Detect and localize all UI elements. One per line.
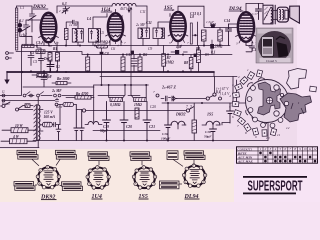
IF3 / detector load xyxy=(190,20,254,52)
capacitor C7 box xyxy=(36,50,45,54)
power transformer T4 (autotransformer) xyxy=(34,97,43,148)
svg-text:C17: C17 xyxy=(252,12,258,16)
tube pinout diagrams (bottom views) xyxy=(14,150,207,200)
pinout DK92 callout box left xyxy=(14,182,35,191)
svg-text:2,2MΩ: 2,2MΩ xyxy=(211,45,223,49)
wire V4 top to output transformer xyxy=(246,3,263,12)
svg-text:C16: C16 xyxy=(162,132,168,136)
wire row y=98.5 with jack xyxy=(176,98,206,100)
svg-text:5: 5 xyxy=(229,105,231,109)
electrolytic C21 xyxy=(143,102,151,141)
capacitor C18 xyxy=(210,129,217,141)
wire V3 top to IF3 xyxy=(178,6,204,25)
svg-text:7: 7 xyxy=(153,90,155,94)
pot R12 xyxy=(110,98,123,102)
resistor R11 xyxy=(218,30,223,41)
right margin tint xyxy=(297,0,320,149)
loudspeaker LS xyxy=(277,6,299,23)
svg-text:6: 6 xyxy=(232,115,234,119)
pinout 1S5 callout box top xyxy=(130,152,151,161)
IF1 can B xyxy=(88,29,100,43)
capacitor C13 dark xyxy=(210,44,214,49)
switch contacts row xyxy=(2,92,61,102)
svg-text:8: 8 xyxy=(245,131,247,135)
svg-text:C9: C9 xyxy=(148,47,152,51)
svg-text:0,1: 0,1 xyxy=(211,51,216,55)
pinout 1U4 leader xyxy=(98,161,100,166)
wire switch row y=95.5 xyxy=(0,95,140,97)
ground bus thick y=71.5 xyxy=(7,71,214,73)
lug holes xyxy=(235,73,275,134)
svg-text:R6: R6 xyxy=(143,53,147,57)
svg-text:1MΩ: 1MΩ xyxy=(166,61,174,65)
resistor R5 xyxy=(121,57,125,71)
wire bottom left y=147 xyxy=(0,147,39,149)
wire V2 top stub xyxy=(115,9,117,13)
svg-text:(+) 67 V: (+) 67 V xyxy=(216,87,229,91)
wire bus H9 y=87 xyxy=(23,86,94,88)
extra pin digits xyxy=(39,8,257,48)
jack filter symbol xyxy=(161,96,177,101)
ferrite antenna rod xyxy=(15,8,17,50)
capacitor C10 mica xyxy=(131,59,137,67)
svg-text:C14: C14 xyxy=(224,19,230,23)
wire B+ down right xyxy=(233,77,237,104)
svg-text:Dm: Dm xyxy=(43,57,50,61)
resistor R10 xyxy=(202,30,207,41)
wire row y=110.5 xyxy=(86,110,186,112)
capacitor C14b dark xyxy=(211,24,215,28)
pinout V3 1S5 xyxy=(132,166,157,190)
svg-text:C13 0,1: C13 0,1 xyxy=(190,12,202,16)
electrolytic C19 xyxy=(103,102,111,141)
svg-text:3: 3 xyxy=(232,83,234,87)
resistor R17 4W xyxy=(10,139,28,144)
pinout 1S5 label xyxy=(139,194,149,200)
svg-text:160 mA: 160 mA xyxy=(44,115,56,119)
resistor R4 xyxy=(86,57,90,71)
svg-text:10: 10 xyxy=(304,147,308,151)
svg-text:C10: C10 xyxy=(126,53,132,57)
svg-text:6,3: 6,3 xyxy=(62,2,67,6)
switch center hub xyxy=(266,97,272,103)
svg-text:10: 10 xyxy=(266,136,270,140)
svg-text:7: 7 xyxy=(237,124,239,128)
IF transformer T2 xyxy=(138,14,170,46)
switch index plate light xyxy=(287,69,307,90)
pinout V2 1U4 xyxy=(86,166,111,190)
trimmer cap near V1 top xyxy=(62,6,70,14)
svg-text:SUPERSPORT: SUPERSPORT xyxy=(248,178,303,195)
capacitor C11 dark xyxy=(175,50,179,54)
AVC line with arrow xyxy=(130,7,133,86)
V2 bottom resistor group xyxy=(86,40,142,72)
capacitor C6 xyxy=(47,65,54,72)
pinout DK92 callout box top-right xyxy=(56,150,77,159)
svg-text:C11: C11 xyxy=(146,21,152,25)
pinout 1U4 callout box top xyxy=(88,152,109,161)
trimmer C2 xyxy=(28,11,36,22)
switch wafer plate xyxy=(246,80,289,123)
resistor R16 10W xyxy=(11,128,28,133)
svg-text:C2: C2 xyxy=(21,34,25,38)
wire osc coil to IF2 xyxy=(136,6,147,28)
rotary wafer switch drawing xyxy=(229,68,317,140)
SUPERSPORT logo xyxy=(243,176,307,195)
output transformer T3 xyxy=(263,5,275,24)
filament 1S5 xyxy=(206,121,220,125)
resistor R20 Ra4700 xyxy=(55,96,94,102)
osc coil L3 xyxy=(112,3,136,6)
wire V1 plate to osc coil xyxy=(57,6,112,13)
IF2 can B xyxy=(153,28,165,39)
mid filter caps xyxy=(85,102,151,141)
filament chain xyxy=(165,103,234,141)
resistor R16 small xyxy=(25,104,30,108)
svg-text:12: 12 xyxy=(286,126,290,130)
resistor R3v xyxy=(64,29,68,40)
svg-text:C21: C21 xyxy=(149,125,155,129)
wire transformer secondary to speaker xyxy=(273,11,277,20)
svg-text:C8: C8 xyxy=(105,52,109,56)
wire bus grid top xyxy=(0,3,277,147)
capacitor C14 xyxy=(226,24,232,46)
pot R13 xyxy=(134,98,147,102)
extra component labels xyxy=(1,6,230,109)
svg-text:C5: C5 xyxy=(30,51,34,55)
resistor R1b box xyxy=(22,44,34,47)
svg-text:R9: R9 xyxy=(196,47,200,51)
capacitor C5 electrolytic xyxy=(28,52,34,66)
tube V3 1S5 envelope xyxy=(170,12,185,41)
switch position numbers xyxy=(229,68,300,140)
IF transformer T1 xyxy=(64,14,134,86)
IF2 can A xyxy=(138,28,150,39)
svg-text:C18: C18 xyxy=(205,130,211,134)
resistor R9 xyxy=(196,50,200,63)
svg-text:12: 12 xyxy=(313,147,317,151)
svg-text:C20: C20 xyxy=(126,125,132,129)
pinout DL94 callout box top-left xyxy=(167,151,178,160)
antenna coil L2 winding xyxy=(18,28,23,33)
wire V2 base xyxy=(110,40,121,46)
IF1 can A xyxy=(72,29,83,43)
capacitor C23 xyxy=(56,125,61,141)
pinout DL94 callout box left xyxy=(160,181,180,189)
wire right drop to bottom bus xyxy=(267,103,269,141)
pinout DK92 label xyxy=(40,195,57,201)
tube V4 DL94 envelope xyxy=(238,12,254,42)
wire bus y=130.5 xyxy=(93,130,160,132)
svg-text:467 kc: 467 kc xyxy=(120,7,130,11)
volume potentiometer group xyxy=(94,85,159,111)
tube pin stubs V1 xyxy=(39,36,59,46)
svg-text:4: 4 xyxy=(229,94,231,98)
pinout DK92 callout box top-left xyxy=(17,150,38,159)
rectifier and filter caps xyxy=(43,103,85,141)
wire bus H4 y=45.5 xyxy=(22,45,230,47)
svg-text:4μF: 4μF xyxy=(175,45,183,49)
wire bottom bus y=140.5 xyxy=(33,140,268,142)
capacitor C12 dark xyxy=(194,54,197,57)
resistor R2 xyxy=(56,53,60,62)
svg-text:9: 9 xyxy=(255,135,257,139)
svg-text:L5: L5 xyxy=(99,31,104,35)
svg-text:C5: C5 xyxy=(33,60,37,64)
svg-text:50μF: 50μF xyxy=(100,129,109,133)
tube pin stubs V2 xyxy=(106,35,126,44)
V1 bottom components xyxy=(22,42,60,72)
tube pin stubs V4 xyxy=(236,35,257,45)
resistor R14 xyxy=(32,72,71,88)
pinout DK92 callout box right xyxy=(62,182,83,191)
electrolytic C19 xyxy=(74,105,79,141)
svg-text:Dm 100μF: Dm 100μF xyxy=(35,75,53,79)
svg-text:2a MF: 2a MF xyxy=(51,89,62,93)
svg-text:125 V: 125 V xyxy=(44,111,53,115)
terminal labels right xyxy=(161,85,221,141)
resistor R19 xyxy=(192,120,197,133)
wire bus H7 y=76.5 xyxy=(100,72,237,77)
svg-text:1S5: 1S5 xyxy=(207,112,213,117)
svg-text:L1: L1 xyxy=(19,19,24,23)
resistor R15 xyxy=(37,74,47,77)
filament DK92 xyxy=(171,121,185,125)
svg-text:L4: L4 xyxy=(73,31,78,35)
svg-text:R10: R10 xyxy=(210,23,216,27)
svg-text:0,5MΩ: 0,5MΩ xyxy=(110,103,121,107)
mains plug terminals xyxy=(1,102,37,144)
svg-text:50μF: 50μF xyxy=(204,135,212,139)
switch inner holes xyxy=(251,86,256,91)
svg-text:Rete: Rete xyxy=(55,105,63,109)
svg-text:G: G xyxy=(2,90,5,94)
svg-text:11: 11 xyxy=(277,133,280,137)
svg-text:11: 11 xyxy=(309,147,312,151)
capacitor C16 xyxy=(165,103,172,141)
antenna coil L1 winding xyxy=(18,23,23,28)
svg-text:R1: R1 xyxy=(53,47,57,51)
switch rotor grey xyxy=(258,82,281,115)
svg-text:C1: C1 xyxy=(20,6,24,10)
svg-text:7: 7 xyxy=(186,105,188,109)
left antenna group xyxy=(6,6,41,59)
svg-text:7: 7 xyxy=(190,106,192,110)
wire bus H8 y=85 xyxy=(94,84,149,86)
svg-text:C11: C11 xyxy=(140,10,146,14)
svg-text:10 W: 10 W xyxy=(15,124,23,128)
svg-text:L4: L4 xyxy=(86,17,91,21)
capacitor C8 xyxy=(100,52,104,55)
svg-text:C20: C20 xyxy=(150,105,156,109)
switch rotor circles xyxy=(274,85,279,90)
svg-text:Fono: Fono xyxy=(1,102,10,106)
resistor R8 xyxy=(189,58,193,69)
contact table CONTATTI xyxy=(237,147,318,164)
svg-text:Rn 1000: Rn 1000 xyxy=(57,77,70,81)
pinout DL94 callout box top-right xyxy=(184,151,205,160)
pinout V1 DK92 xyxy=(36,165,61,189)
resistor R6 xyxy=(138,57,142,71)
svg-text:R7: R7 xyxy=(167,56,171,60)
pinout DK92 leader lines xyxy=(32,159,62,185)
svg-text:2a 467 Z: 2a 467 Z xyxy=(161,85,177,90)
capacitor C9b dark xyxy=(131,51,134,54)
svg-text:2: 2 xyxy=(238,75,240,79)
svg-text:Ciaud 5: Ciaud 5 xyxy=(266,59,277,63)
svg-text:4 W: 4 W xyxy=(12,135,20,139)
ground symbol left xyxy=(6,72,8,80)
svg-text:1MΩ: 1MΩ xyxy=(134,103,142,107)
electrolytic C20 xyxy=(79,110,84,141)
photo of radio set xyxy=(256,28,293,63)
svg-text:100μF: 100μF xyxy=(161,137,171,141)
capacitor C4 xyxy=(39,56,44,64)
choke humps xyxy=(88,121,99,124)
electrolytic C20 xyxy=(120,102,128,141)
V3 load resistors xyxy=(162,40,214,72)
pinout 1U4 label xyxy=(92,194,103,200)
trimmer C1 xyxy=(22,25,30,33)
resistor R13 xyxy=(43,122,53,127)
wire antenna return xyxy=(21,46,23,96)
value labels scattered xyxy=(12,2,258,139)
wire bus y=103 xyxy=(162,102,268,104)
pinout DL94 label xyxy=(184,194,200,200)
resistor R7 xyxy=(162,54,166,66)
svg-text:1a MF: 1a MF xyxy=(69,23,79,27)
tube V1 DK92 envelope xyxy=(41,13,57,43)
svg-text:1: 1 xyxy=(247,68,249,72)
resistor R3 xyxy=(97,45,108,48)
resistor RS 1800 xyxy=(63,103,74,107)
switch lever grey xyxy=(280,93,312,122)
pinout DL94 leaders xyxy=(173,159,194,166)
svg-text:R2: R2 xyxy=(55,65,60,69)
svg-text:Ra 4700: Ra 4700 xyxy=(76,92,88,96)
resistor R18 xyxy=(135,108,139,119)
svg-text:ALT. MAX: ALT. MAX xyxy=(237,160,254,164)
capacitor C9 xyxy=(41,72,47,83)
capacitor C22 xyxy=(227,103,234,123)
svg-text:C6: C6 xyxy=(111,47,115,51)
wire bus H5 y=51.5 xyxy=(16,52,232,55)
IF3 coil narrow box xyxy=(190,23,192,44)
pinout 1S5 leader xyxy=(141,161,143,166)
schematic paper tint xyxy=(0,0,320,149)
capacitor C15 xyxy=(246,42,255,52)
pinout V4 DL94 xyxy=(182,164,207,188)
wire cathode xyxy=(44,42,57,52)
svg-text:R9: R9 xyxy=(204,53,209,57)
tube pin stubs V3 xyxy=(168,35,188,45)
tube V2 1U4 envelope xyxy=(108,13,123,41)
svg-text:2a MF: 2a MF xyxy=(136,23,146,27)
bottom tube-pinout paper band xyxy=(0,149,234,202)
switch solder lugs ring xyxy=(232,70,316,136)
svg-text:R8: R8 xyxy=(184,61,188,65)
svg-text:DK92: DK92 xyxy=(175,112,186,117)
arrow to V2 top xyxy=(128,6,130,12)
capacitor C17 on B+ xyxy=(256,4,262,20)
antenna terminals xyxy=(6,52,9,55)
resistor R1 xyxy=(48,53,52,62)
